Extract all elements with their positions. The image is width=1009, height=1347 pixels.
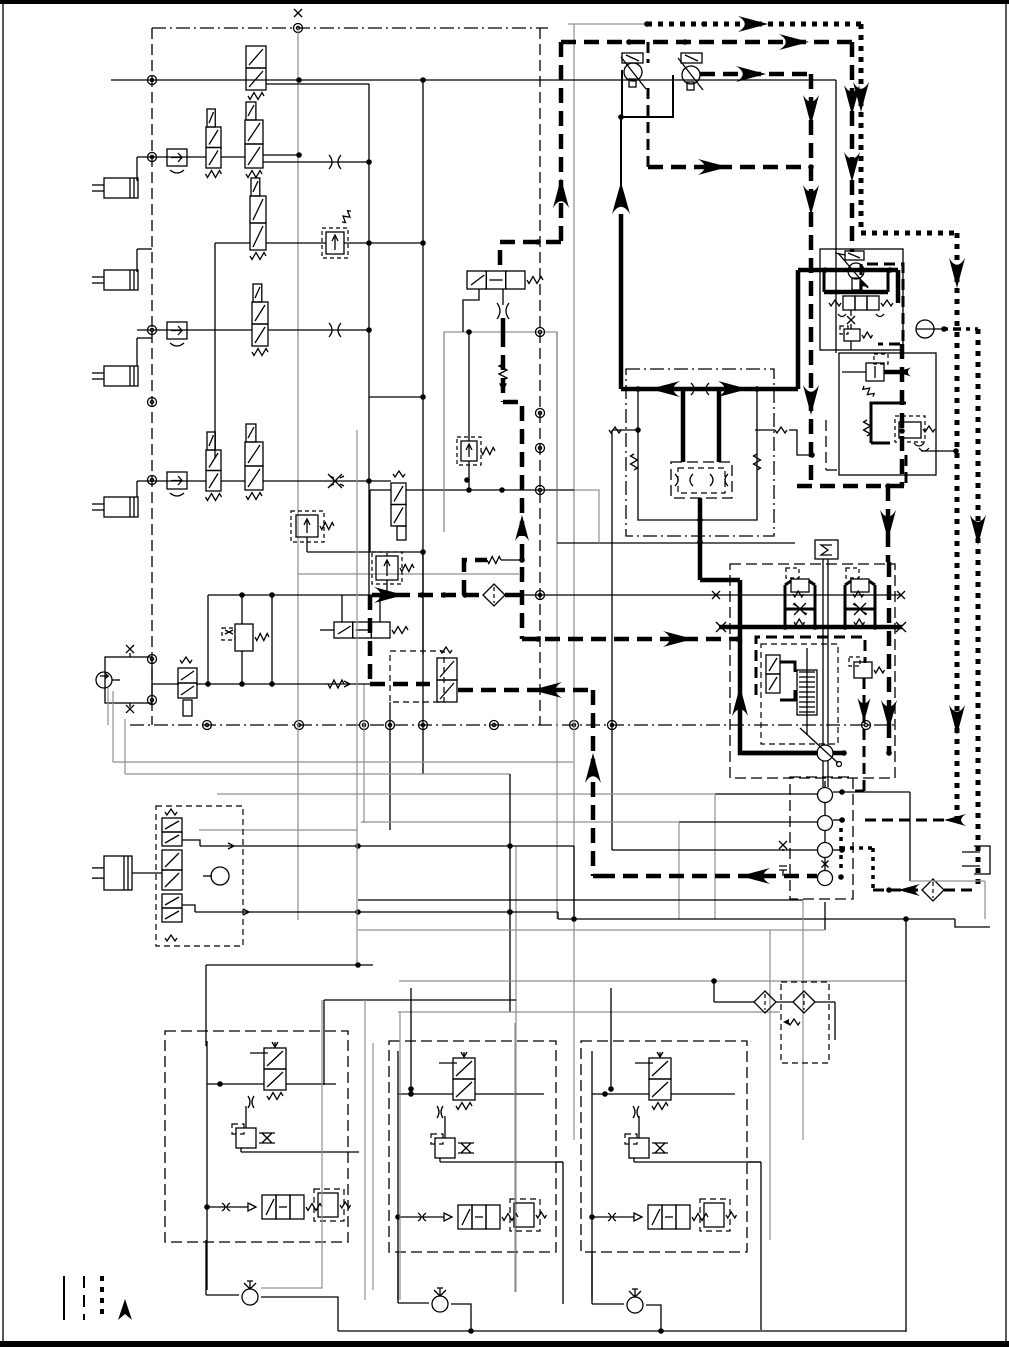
wire y774 bbox=[125, 719, 510, 774]
fan group dashdot bbox=[826, 420, 839, 470]
pressure comp PC2 bbox=[372, 552, 414, 595]
spring V8 top bbox=[440, 647, 452, 653]
pressure gauge G1 bbox=[916, 320, 957, 338]
wire y965 bbox=[206, 962, 373, 968]
pipe bold-dash x811 bbox=[803, 74, 819, 486]
wire row5 bbox=[137, 478, 391, 484]
pipe bold-dash x902 bbox=[899, 344, 905, 486]
pipe bold-dash y74 bbox=[700, 66, 811, 82]
wire B2 pairline bbox=[395, 1213, 444, 1221]
filter F2 diamond bbox=[922, 879, 944, 901]
border frame left bbox=[2, 4, 4, 1341]
filter F1 diamond bbox=[483, 584, 505, 606]
cylinder C2 bbox=[92, 270, 138, 290]
relief B2-R2 bbox=[510, 1199, 547, 1231]
pipe thick x798 bbox=[796, 270, 801, 389]
pipe dotted x873 bbox=[871, 848, 875, 890]
pipe bold-dash x906 up bbox=[905, 455, 908, 486]
pump P1 xmarks bbox=[126, 645, 134, 713]
port circle 3 bbox=[818, 831, 833, 858]
relief B1-R2 bbox=[314, 1189, 351, 1221]
wire B1 gray bbox=[261, 1000, 322, 1288]
throttle PV bbox=[497, 303, 509, 319]
wire B1 cross bbox=[207, 1081, 336, 1087]
wire B3 pairline bbox=[589, 1213, 634, 1221]
node rings pump bbox=[148, 655, 157, 705]
pipe bold-dash y167 bbox=[648, 159, 811, 175]
wire x910 drop bbox=[909, 792, 911, 881]
wire row2 out a bbox=[263, 152, 302, 158]
arrow right on y389 bbox=[718, 381, 748, 397]
pipe bold-dash x503 bbox=[501, 332, 506, 402]
port circle 4 bbox=[818, 858, 833, 886]
cylinder C4 bbox=[92, 497, 138, 517]
wire cyl4 feed bbox=[136, 481, 138, 497]
valve V8 stack bbox=[437, 658, 457, 702]
valve V5a row5 bbox=[206, 432, 222, 501]
wire gray mid vertical bbox=[556, 332, 558, 919]
spring branch C bbox=[487, 557, 522, 564]
pipe bold-dash to valve bbox=[500, 239, 561, 271]
pipe thick drop a bbox=[681, 389, 686, 462]
wire x803 bbox=[802, 900, 804, 1140]
arcs VF bbox=[914, 443, 929, 451]
wire gray x515 bbox=[514, 1023, 516, 1292]
travel block inner thin bbox=[638, 389, 757, 520]
pipe bold-dash elbow bbox=[503, 402, 529, 639]
sigma lines bbox=[823, 559, 828, 787]
pipe dash F2 out bbox=[944, 889, 978, 892]
wire gray x400 bbox=[399, 1012, 401, 1300]
group box B2 bbox=[389, 1041, 556, 1252]
pipe thick y270 bbox=[798, 267, 898, 273]
wire travel pilot R bbox=[755, 427, 815, 458]
wire mid drops bbox=[408, 988, 614, 1092]
wire gray right vertical bbox=[573, 24, 575, 1140]
spring inline pump bus bbox=[328, 680, 350, 688]
pipe swing dash drop bbox=[855, 678, 871, 791]
sigma box bbox=[815, 540, 838, 559]
tank bracket bbox=[962, 846, 990, 874]
arrow left on y389 bbox=[650, 381, 680, 397]
wire gray mid bbox=[298, 573, 519, 575]
pipe thick riser x621 bbox=[612, 182, 630, 389]
valve V9 pump bbox=[178, 657, 197, 716]
group box G-main right bbox=[539, 28, 541, 725]
pipe bold-dash y641 bbox=[522, 631, 741, 647]
wire x516 bbox=[515, 846, 517, 1292]
check valve row5 bbox=[167, 472, 187, 496]
swing motor M2 bbox=[740, 745, 833, 761]
group box B1 thin bbox=[206, 1041, 208, 1290]
valve B2-V2 bbox=[444, 1205, 518, 1229]
swing inner dash box bbox=[756, 637, 865, 695]
filter F3 bbox=[754, 991, 776, 1013]
wire B3 mid bbox=[634, 1158, 761, 1162]
valve B2-V1 bbox=[439, 1052, 475, 1110]
wire pump drop bbox=[850, 341, 852, 350]
wire y1012 bbox=[398, 1011, 780, 1013]
wire circ1 stub bbox=[833, 789, 910, 795]
wire x510 bbox=[507, 774, 513, 1012]
wire x906 long bbox=[905, 919, 907, 1332]
wire row5 port bbox=[370, 490, 391, 552]
border frame right bbox=[1005, 4, 1007, 1341]
wire y981 bbox=[399, 980, 906, 982]
spring travel R bbox=[754, 454, 761, 470]
pipe bold-dash x888 drop bbox=[880, 486, 896, 562]
pipe dotted x861 bbox=[853, 24, 869, 233]
node ring top center bbox=[294, 9, 303, 33]
group box G-main dash-dot top bbox=[152, 27, 548, 29]
arrow RVF bbox=[897, 368, 911, 377]
relief RC cluster bbox=[222, 595, 269, 684]
steering group box bbox=[156, 806, 243, 946]
wire circ3 stub bbox=[833, 847, 845, 853]
node circ4 stub bbox=[838, 874, 844, 880]
valve V2b row2 bbox=[245, 102, 263, 178]
throttle row2 bbox=[329, 155, 341, 169]
wire y919 bbox=[558, 912, 955, 922]
wire x364 drop bbox=[363, 684, 365, 823]
wire RV2 links bbox=[307, 537, 426, 555]
valve VF square bbox=[895, 416, 925, 442]
wire B3 right drop bbox=[747, 1162, 761, 1330]
wire x770 bbox=[769, 930, 771, 1240]
spring on pipe x503 bbox=[499, 364, 507, 390]
pump P1 bbox=[96, 672, 120, 688]
relief pump RP bbox=[840, 326, 873, 341]
relief B1-R bbox=[232, 1106, 275, 1148]
steering wire b bbox=[182, 905, 195, 912]
swing inner dash box2 bbox=[761, 644, 838, 744]
wire travel pilot L bbox=[609, 427, 641, 850]
valve V4 row4 bbox=[252, 284, 268, 356]
fan group box bbox=[839, 353, 936, 475]
wire circ3 left bbox=[612, 841, 817, 851]
relief valve RV1 row3 bbox=[322, 209, 353, 258]
pump B1-P bbox=[206, 1240, 338, 1331]
wire x272 bbox=[271, 595, 273, 684]
wire x574 drop bbox=[571, 846, 577, 922]
group box B3 bbox=[581, 1041, 747, 1252]
wire filter links bbox=[711, 978, 835, 1040]
wire y595 thin right bbox=[522, 591, 905, 599]
wire row1 right drop bbox=[835, 80, 837, 353]
pipe bold-dash y595 bbox=[372, 587, 484, 603]
valve V3 row3 bbox=[250, 178, 266, 260]
pipe bold-dash y690 bbox=[458, 682, 593, 698]
wire row2 bbox=[137, 156, 245, 158]
wire y595 left bbox=[208, 592, 372, 598]
wire y397 bbox=[369, 396, 423, 398]
pump P2 top gear bbox=[835, 251, 864, 260]
pipe motor stub bbox=[833, 750, 847, 756]
circle column box bbox=[790, 777, 853, 899]
pipe bold-dash y684 bbox=[370, 682, 430, 687]
wire y900 bbox=[358, 899, 803, 901]
relief B2-R bbox=[431, 1116, 474, 1158]
cylinder C1 bbox=[92, 178, 138, 198]
node ring row1 bbox=[148, 76, 157, 85]
pipe dotted y24 bbox=[644, 16, 861, 32]
filter F4 bbox=[793, 991, 815, 1013]
gear assembly bbox=[766, 655, 795, 700]
legend dashed line bbox=[83, 1276, 85, 1320]
wire row3 bbox=[215, 240, 426, 246]
valve PV prop bbox=[467, 271, 543, 289]
gear comb bbox=[797, 670, 817, 715]
pipe swing left rail bbox=[732, 627, 818, 753]
gear lever bbox=[800, 648, 842, 767]
pipe dotted y848 bbox=[841, 846, 873, 850]
pipe bold-dash y595b bbox=[505, 593, 522, 598]
pipe dotted y233 bbox=[861, 231, 957, 236]
wire x324 bbox=[323, 1000, 325, 1085]
motor valve MV2 bbox=[678, 53, 703, 90]
wire y919 step bbox=[955, 919, 990, 927]
wire RVF left bbox=[842, 371, 866, 373]
node ring y595 bbox=[536, 328, 545, 600]
node ring row4b bbox=[148, 398, 157, 407]
pipe bold-dash y486 bbox=[797, 483, 906, 489]
valve V1 row1 bbox=[246, 46, 266, 100]
filter F4 box bbox=[781, 982, 829, 1063]
wire main line row1 bbox=[111, 77, 836, 83]
motor block M1 bbox=[671, 462, 732, 498]
check valve row2 bbox=[167, 149, 187, 173]
wire x208 bbox=[205, 595, 211, 687]
wire row3 pilot drop bbox=[214, 243, 216, 458]
valve V2a row2 bbox=[206, 109, 222, 178]
relief valve RV3 bbox=[457, 437, 495, 465]
pipe bold y373 bbox=[884, 370, 906, 375]
port circle 1 bbox=[818, 781, 833, 803]
wire VF out bbox=[921, 448, 959, 454]
relief valve RV2 bbox=[291, 511, 334, 542]
pipe bold-dash riser x561 bbox=[553, 42, 569, 242]
wire MV link U bbox=[618, 70, 673, 120]
pipe thick y389 bbox=[621, 386, 798, 392]
valve B3-V1 bbox=[635, 1052, 671, 1110]
group box B1 bbox=[165, 1031, 348, 1242]
wire y930 bbox=[358, 929, 825, 931]
wire y881 gray bbox=[910, 881, 985, 919]
wire B2 mid bbox=[440, 1158, 563, 1162]
wire pump links bbox=[107, 688, 109, 725]
wire B2 right drop bbox=[556, 1162, 563, 1304]
wire B1 pairline bbox=[204, 1203, 248, 1211]
travel block box bbox=[626, 369, 774, 536]
wire B1 mid bbox=[241, 1148, 359, 1152]
node ring row5 bbox=[148, 476, 157, 485]
node ring row5 box edge bbox=[536, 486, 545, 495]
swing relief B bbox=[845, 568, 875, 627]
pipe thick M1 out bbox=[697, 498, 703, 580]
wire x390 drop bbox=[389, 702, 391, 830]
throttle row4 bbox=[329, 323, 341, 337]
wire y912 bbox=[195, 909, 558, 915]
wire circ1 left bbox=[217, 794, 817, 919]
spring F4 bbox=[783, 1019, 800, 1025]
port circle 2 bbox=[818, 803, 833, 831]
wire PV drop bbox=[463, 289, 503, 332]
pump B3-P bbox=[592, 1252, 661, 1330]
pipe thick entry bbox=[700, 580, 740, 627]
valve B1-V1 bbox=[250, 1042, 286, 1100]
legend solid line bbox=[63, 1276, 65, 1320]
pipe thick y292 bbox=[824, 270, 888, 292]
cylinder C3 bbox=[92, 366, 138, 386]
pipe dotted x978 top bbox=[957, 327, 978, 331]
pipe bold-dash x852 bbox=[844, 42, 860, 252]
arcs on y389 bbox=[691, 383, 709, 395]
wire gray center vertical bbox=[297, 28, 299, 920]
fan H block bbox=[871, 403, 906, 443]
pipe bold below PV bbox=[501, 318, 506, 332]
steering pump bbox=[203, 867, 229, 885]
pipe bold-dash x600 drop bbox=[585, 690, 601, 876]
legend arrow bbox=[118, 1299, 132, 1320]
wire cyl1 feed bbox=[136, 157, 138, 181]
pump P1 box bbox=[105, 657, 152, 703]
throttle pump X bbox=[847, 310, 855, 329]
wire vertical x369 bbox=[266, 84, 369, 595]
steering wire a bbox=[182, 840, 200, 846]
wire gray y762 bbox=[113, 691, 573, 762]
wire row4 bbox=[137, 327, 372, 333]
border frame bottom bbox=[0, 1341, 1009, 1347]
pump compensator bbox=[829, 296, 893, 310]
wire V8 dashed box bbox=[390, 651, 444, 702]
wire vertical x423 bbox=[420, 80, 426, 774]
pipe dotted x841 bbox=[839, 828, 843, 871]
steering cylinder bbox=[92, 856, 162, 890]
wire x206 bbox=[205, 965, 207, 1046]
pipe thick drop b bbox=[717, 389, 722, 462]
swing group box bbox=[730, 564, 895, 778]
spring fan H bbox=[864, 420, 871, 436]
valve V5c stack bbox=[391, 471, 406, 540]
node rings on bottom line bbox=[203, 721, 871, 730]
wire cyl3 feed bbox=[137, 338, 152, 366]
wire gray box bottom bbox=[557, 542, 795, 544]
node ring row4 bbox=[148, 326, 157, 335]
node ring row2 bbox=[148, 153, 157, 162]
pipe bold-dash MV1 drop bbox=[647, 88, 650, 167]
wire circ2 left bbox=[361, 822, 817, 919]
pipe dash y820 bbox=[865, 814, 966, 826]
wire circ2 stub bbox=[833, 817, 845, 823]
pipe bold-dash y42 bbox=[561, 34, 852, 50]
wire row5 right bbox=[406, 487, 575, 493]
steering valve stack bbox=[162, 818, 182, 922]
pipe dotted x978 bbox=[970, 329, 986, 890]
wire y1000 bbox=[324, 999, 516, 1001]
group box B2 thin bbox=[397, 1051, 399, 1300]
pipe swing bus y627 bbox=[716, 622, 906, 632]
steering springs bbox=[165, 809, 177, 941]
wire x358 bbox=[356, 430, 358, 965]
wire gray top bbox=[568, 23, 647, 25]
group box G-main bottom dash-dot bbox=[130, 724, 898, 726]
pipe dotted x957 bbox=[949, 233, 965, 820]
wire y846 bbox=[200, 843, 574, 849]
relief B3-R bbox=[625, 1116, 668, 1158]
wire relief RV3 drop bbox=[464, 329, 472, 483]
pump block box bbox=[820, 249, 903, 350]
wire sigma below bbox=[824, 902, 826, 930]
valve B3-V2 bbox=[634, 1205, 708, 1229]
wire B2 cross bbox=[398, 1091, 544, 1097]
arcs B3 bbox=[633, 1106, 639, 1118]
pipe thick x898 bbox=[896, 270, 901, 303]
border frame top bbox=[0, 0, 1009, 4]
pipe dash y890 bbox=[873, 884, 922, 896]
group box B3 thin bbox=[591, 1051, 593, 1300]
check valve row4 bbox=[167, 322, 187, 346]
legend dotted line bbox=[100, 1276, 104, 1320]
spring VF bbox=[923, 426, 935, 432]
pipe bold-dash x370 bbox=[368, 595, 373, 684]
spring travel L bbox=[631, 454, 638, 470]
motor valve MV1 bbox=[621, 53, 646, 89]
pipe swing right rail bbox=[881, 562, 897, 756]
wire pump bus bbox=[152, 681, 370, 687]
wire bottom bus bbox=[338, 1328, 906, 1334]
wire steering gray y830 bbox=[199, 829, 357, 831]
valve V5b row5 bbox=[245, 424, 263, 500]
swing relief A bbox=[785, 568, 815, 627]
valve V6 cluster bbox=[320, 595, 408, 638]
wire row2 out b bbox=[263, 159, 372, 165]
wire gray x373 bbox=[365, 1000, 373, 1300]
swing relief C bbox=[849, 657, 885, 678]
wire cyl2 feed bbox=[137, 249, 152, 272]
pump B2-P bbox=[398, 1252, 471, 1330]
valve MV1 stub bbox=[647, 42, 650, 63]
relief valve RVF bbox=[862, 354, 888, 399]
wire RV3 down bbox=[468, 461, 470, 490]
wire gray stub bbox=[574, 490, 599, 543]
main pump P2 bbox=[838, 253, 869, 290]
pipe bold-dash pump box bbox=[861, 264, 903, 344]
group gray box bbox=[444, 332, 557, 543]
arcs B1 bbox=[248, 1096, 254, 1108]
arcs compensator bbox=[838, 314, 884, 317]
group box G-main left bbox=[151, 28, 153, 725]
wire MV1 riser bbox=[620, 117, 622, 187]
wire B3 cross bbox=[592, 1091, 735, 1097]
relief B3-R2 bbox=[700, 1199, 737, 1231]
throttle row5 bbox=[328, 474, 344, 488]
pipe bold-dash branch C bbox=[464, 560, 487, 595]
arcs B2 bbox=[437, 1106, 443, 1118]
valve B1-V2 bbox=[248, 1195, 322, 1219]
pipe circ4 dash bbox=[600, 866, 817, 884]
